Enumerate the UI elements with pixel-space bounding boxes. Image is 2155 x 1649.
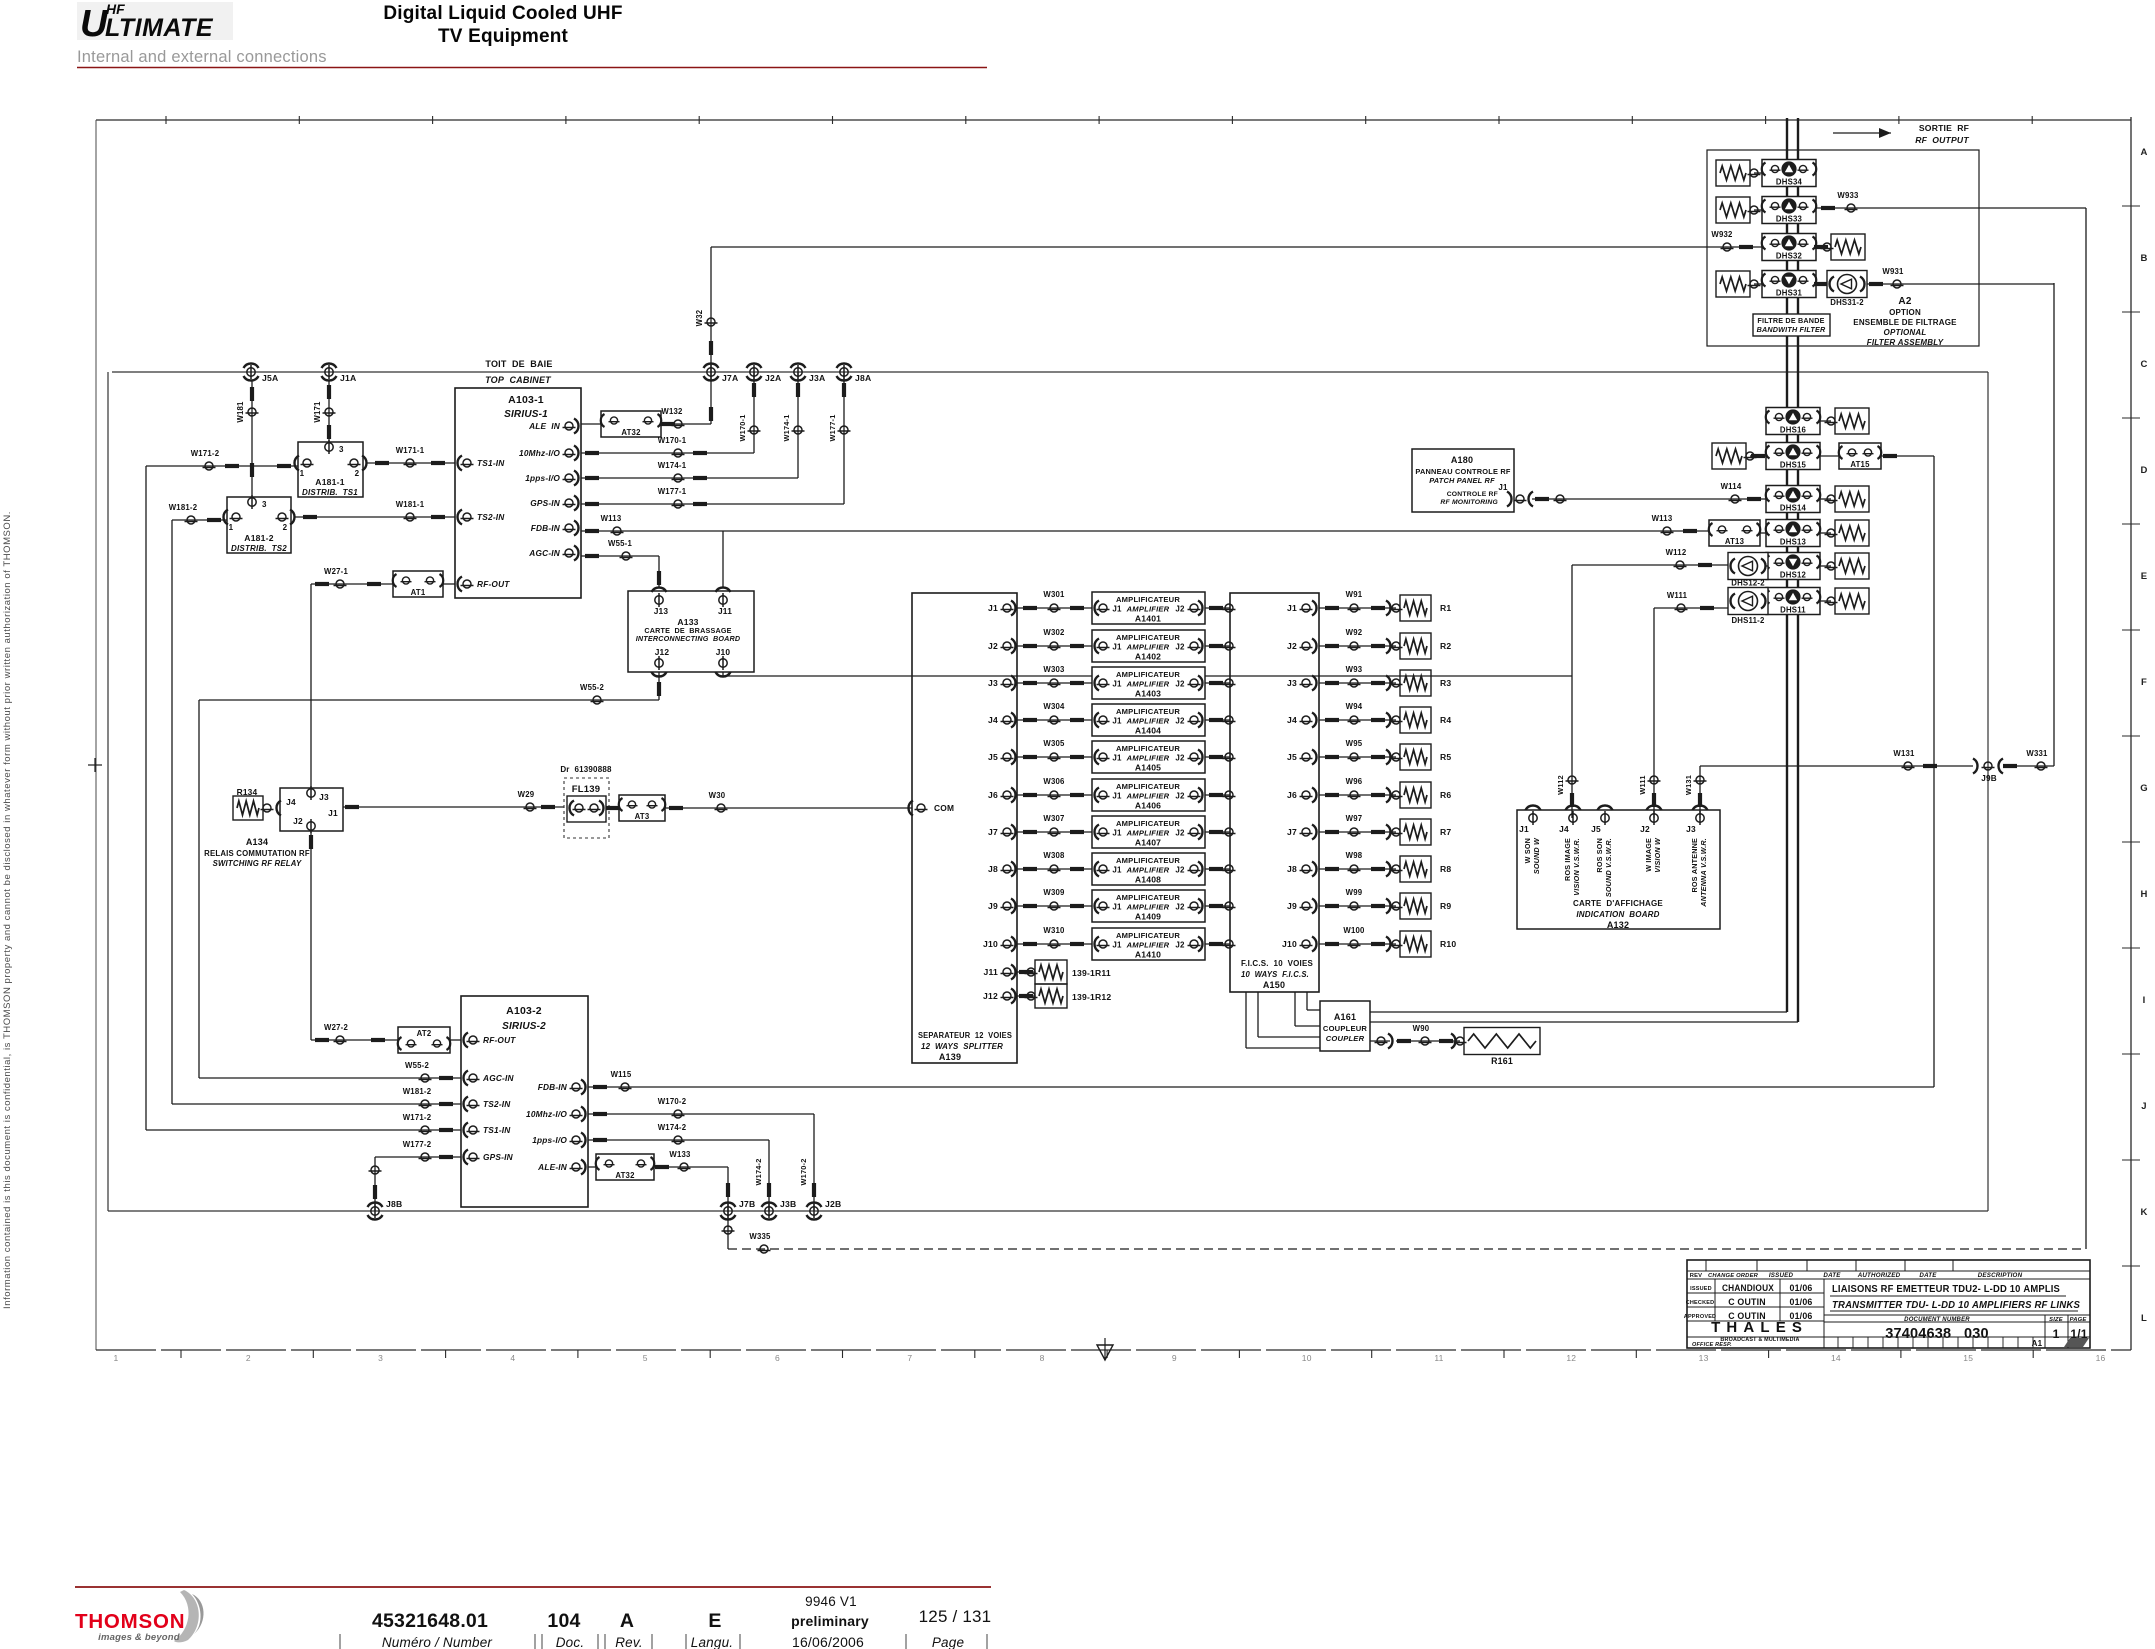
svg-text:J1: J1: [1112, 605, 1122, 614]
svg-text:139-1R12: 139-1R12: [1072, 992, 1111, 1002]
coupler DHS34: [1762, 160, 1816, 187]
svg-text:TOP CABINET: TOP CABINET: [485, 375, 552, 385]
svg-text:W932: W932: [1711, 230, 1733, 239]
A103-2 port RF-OUT: [463, 1033, 468, 1048]
svg-text:INDICATION BOARD: INDICATION BOARD: [1576, 910, 1659, 919]
title block: [1687, 1260, 2090, 1348]
amplifier A1403: [1092, 667, 1205, 699]
sheet frame right border: [2130, 117, 2132, 1350]
svg-text:THOMSON: THOMSON: [75, 1610, 185, 1633]
svg-text:A1: A1: [2032, 1339, 2043, 1348]
A132 port J3: [1693, 805, 1708, 810]
svg-text:SWITCHING RF RELAY: SWITCHING RF RELAY: [213, 859, 302, 868]
svg-text:VISION V.S.W.R.: VISION V.S.W.R.: [1572, 838, 1581, 896]
A132 port J1: [1526, 806, 1541, 810]
wire amplifier A1408 to FICS: [1205, 868, 1230, 870]
roof connector J1A: [322, 364, 337, 369]
svg-text:ISSUED: ISSUED: [1769, 1272, 1794, 1279]
svg-text:W27-2: W27-2: [324, 1023, 348, 1032]
svg-text:W55-2: W55-2: [405, 1061, 429, 1070]
wire amplifier A1404 to FICS: [1205, 719, 1230, 721]
svg-text:W335: W335: [749, 1232, 771, 1241]
svg-text:J4: J4: [1287, 715, 1297, 725]
svg-text:J5: J5: [1287, 752, 1297, 762]
wire W171-2 toward SIRIUS-2: [146, 465, 298, 467]
svg-text:J9: J9: [988, 901, 998, 911]
wire A134 J1 to FL139: [343, 806, 564, 808]
svg-text:SIZE: SIZE: [2049, 1317, 2064, 1323]
svg-text:J9B: J9B: [1981, 774, 1997, 783]
cabinet bottom connector J2B: [807, 1203, 822, 1207]
A132 port J5: [1598, 805, 1613, 810]
footer separators: [339, 1634, 341, 1649]
svg-text:DHS12: DHS12: [1780, 571, 1807, 580]
svg-text:Numéro / Number: Numéro / Number: [382, 1635, 493, 1649]
svg-text:COM: COM: [934, 803, 954, 813]
wire W305 splitter to amplifier A1405: [1017, 756, 1092, 758]
svg-text:W303: W303: [1043, 665, 1065, 674]
DHS14 load resistor: [1820, 498, 1831, 500]
svg-text:COUPLER: COUPLER: [1326, 1034, 1365, 1043]
A139 COM port: [908, 801, 913, 816]
svg-text:REV: REV: [1690, 1273, 1703, 1279]
unit A103-1 SIRIUS-1: [455, 388, 581, 598]
svg-text:AGC-IN: AGC-IN: [482, 1073, 515, 1083]
wire W181 from J5A to A181-2: [251, 380, 253, 497]
wire W308 splitter to amplifier A1408: [1017, 868, 1092, 870]
resistor R134: [233, 796, 263, 820]
A103-1 port TS2-IN: [458, 510, 463, 525]
wire W111 from A132 J2 to DHS11-2: [1653, 608, 1655, 818]
svg-text:AMPLIFICATEUR: AMPLIFICATEUR: [1116, 819, 1180, 828]
resistor R5: [1400, 744, 1431, 770]
svg-text:J9: J9: [1287, 901, 1297, 911]
coupler DHS31: [1762, 271, 1816, 298]
svg-text:W SON: W SON: [1523, 838, 1532, 863]
svg-text:10: 10: [1302, 1353, 1312, 1363]
DHS11 load resistor: [1820, 600, 1831, 602]
svg-text:R161: R161: [1491, 1056, 1513, 1066]
svg-text:RF-OUT: RF-OUT: [483, 1035, 516, 1045]
wire amplifier A1402 to FICS: [1205, 645, 1230, 647]
riser A134 J2 down to RF-OUT-2 line: [310, 831, 312, 1040]
svg-text:J1A: J1A: [340, 373, 356, 383]
resistor R9: [1400, 893, 1431, 919]
svg-text:2: 2: [283, 523, 288, 532]
svg-text:A1405: A1405: [1135, 763, 1161, 773]
svg-text:W933: W933: [1837, 191, 1859, 200]
svg-text:1: 1: [300, 469, 305, 478]
svg-text:W97: W97: [1346, 814, 1363, 823]
wire W304 splitter to amplifier A1404: [1017, 719, 1092, 721]
wire amplifier A14010 to FICS: [1205, 943, 1230, 945]
svg-text:W305: W305: [1043, 739, 1065, 748]
RF bus risers: [1786, 614, 1788, 1012]
svg-text:W174-1: W174-1: [658, 461, 687, 470]
svg-text:TV Equipment: TV Equipment: [438, 26, 569, 47]
svg-text:RELAIS COMMUTATION RF: RELAIS COMMUTATION RF: [204, 849, 310, 858]
svg-text:ROS IMAGE: ROS IMAGE: [1563, 838, 1572, 881]
coupler DHS11: [1766, 588, 1820, 615]
riser to J8A: [843, 372, 845, 504]
svg-text:FDB-IN: FDB-IN: [531, 523, 561, 533]
svg-text:G: G: [2140, 783, 2148, 794]
resistor R1: [1400, 595, 1431, 621]
svg-text:10 WAYS F.I.C.S.: 10 WAYS F.I.C.S.: [1241, 970, 1309, 979]
svg-text:W170-1: W170-1: [738, 414, 747, 441]
riser AT1 to A134 J3: [310, 584, 312, 788]
svg-text:AMPLIFICATEUR: AMPLIFICATEUR: [1116, 856, 1180, 865]
wire W114 to DHS14: [1532, 498, 1766, 500]
svg-text:A161: A161: [1334, 1012, 1356, 1022]
A103-1 port TS1-IN: [458, 456, 463, 471]
svg-text:Langu.: Langu.: [691, 1635, 734, 1649]
svg-text:A103-2: A103-2: [506, 1005, 542, 1017]
svg-text:11: 11: [1434, 1353, 1443, 1363]
svg-text:DHS12-2: DHS12-2: [1731, 579, 1765, 588]
svg-text:TOIT DE BAIE: TOIT DE BAIE: [485, 359, 552, 369]
svg-text:W113: W113: [1652, 514, 1673, 523]
svg-text:J10: J10: [716, 647, 731, 657]
board A132 INDICATION BOARD: [1517, 810, 1720, 929]
wire W302 splitter to amplifier A1402: [1017, 645, 1092, 647]
svg-text:W308: W308: [1043, 851, 1065, 860]
svg-text:DHS11: DHS11: [1780, 606, 1806, 615]
svg-text:16/06/2006: 16/06/2006: [792, 1634, 864, 1649]
wire W133 ALE to J7B: [654, 1166, 728, 1168]
svg-text:CONTROLE RF: CONTROLE RF: [1447, 491, 1498, 498]
svg-text:AMPLIFICATEUR: AMPLIFICATEUR: [1116, 744, 1180, 753]
svg-text:SIRIUS-2: SIRIUS-2: [502, 1021, 546, 1032]
svg-text:R5: R5: [1440, 752, 1451, 762]
svg-text:W174-1: W174-1: [782, 414, 791, 441]
svg-text:R3: R3: [1440, 678, 1451, 688]
roof connector J7A: [704, 364, 719, 368]
svg-text:C OUTIN: C OUTIN: [1728, 1297, 1766, 1307]
svg-text:J11: J11: [718, 606, 732, 616]
svg-text:CHECKED: CHECKED: [1686, 1300, 1715, 1306]
svg-text:W93: W93: [1346, 665, 1363, 674]
attenuator AT32 (bottom): [588, 1166, 596, 1168]
wire W131 from A132 J3: [1699, 766, 1701, 818]
svg-text:R7: R7: [1440, 827, 1451, 837]
svg-text:AMPLIFIER: AMPLIFIER: [1126, 941, 1170, 950]
wire W170-2 10Mhz to J2B: [588, 1113, 814, 1115]
svg-text:A: A: [620, 1610, 634, 1632]
svg-text:J2: J2: [1175, 903, 1185, 912]
svg-text:J10: J10: [983, 939, 998, 949]
svg-text:AMPLIFICATEUR: AMPLIFICATEUR: [1116, 782, 1180, 791]
svg-text:RF-OUT: RF-OUT: [477, 579, 510, 589]
svg-text:5: 5: [643, 1353, 648, 1363]
roof connector J5A: [244, 364, 259, 369]
A132 port J4: [1566, 805, 1581, 810]
svg-text:Doc.: Doc.: [556, 1635, 585, 1649]
svg-text:CHANDIOUX: CHANDIOUX: [1722, 1283, 1774, 1293]
svg-text:DOCUMENT NUMBER: DOCUMENT NUMBER: [1904, 1317, 1970, 1323]
svg-text:45321648.01: 45321648.01: [372, 1610, 488, 1632]
svg-text:AMPLIFICATEUR: AMPLIFICATEUR: [1116, 931, 1180, 940]
svg-text:J2: J2: [1175, 754, 1185, 763]
svg-text:A1403: A1403: [1135, 689, 1161, 699]
svg-text:DHS11-2: DHS11-2: [1731, 616, 1765, 625]
svg-text:BROADCAST & MULTIMEDIA: BROADCAST & MULTIMEDIA: [1720, 1337, 1799, 1343]
wire from A133 J10 to W112 riser: [722, 672, 724, 676]
svg-text:J2: J2: [1175, 829, 1185, 838]
wire amplifier A1406 to FICS: [1205, 794, 1230, 796]
svg-text:FILTRE DE BANDE: FILTRE DE BANDE: [1757, 316, 1824, 325]
DHS12 load resistor: [1820, 565, 1831, 567]
svg-text:4: 4: [510, 1353, 515, 1363]
svg-text:B: B: [2140, 253, 2147, 264]
svg-text:J1: J1: [1112, 717, 1122, 726]
resistor R6: [1400, 782, 1431, 808]
svg-text:W133: W133: [669, 1150, 691, 1159]
svg-text:FL139: FL139: [572, 784, 600, 795]
svg-text:J2: J2: [293, 816, 303, 826]
wire W171-2 into TS1-IN: [146, 1129, 461, 1131]
wire W933: [1815, 208, 1817, 210]
svg-text:104: 104: [547, 1610, 580, 1632]
svg-text:VISION W: VISION W: [1653, 837, 1662, 873]
svg-text:PAGE: PAGE: [2070, 1317, 2088, 1323]
svg-text:R2: R2: [1440, 641, 1451, 651]
svg-text:J2: J2: [1175, 605, 1185, 614]
attenuator AT1: [393, 571, 443, 597]
bottom centre mark: [1097, 1345, 1113, 1360]
wire W170-1: [581, 452, 754, 454]
coupler DHS33: [1762, 197, 1816, 224]
wire amplifier A1403 to FICS: [1205, 682, 1230, 684]
attenuator AT2: [398, 1027, 450, 1053]
coupler DHS12: [1766, 553, 1820, 580]
svg-text:ENSEMBLE DE FILTRAGE: ENSEMBLE DE FILTRAGE: [1853, 318, 1957, 327]
svg-text:DHS33: DHS33: [1776, 215, 1803, 224]
coupler DHS13: [1766, 520, 1820, 547]
wire W171-1 to SIRIUS-1 TS1-IN: [366, 462, 455, 464]
svg-text:J1: J1: [1112, 903, 1122, 912]
svg-text:A132: A132: [1607, 920, 1629, 930]
svg-text:DHS34: DHS34: [1776, 178, 1803, 187]
coupler DHS15: [1766, 443, 1820, 470]
svg-text:W310: W310: [1043, 926, 1065, 935]
cabinet bottom connector J3B: [762, 1203, 777, 1208]
svg-text:AMPLIFICATEUR: AMPLIFICATEUR: [1116, 670, 1180, 679]
svg-text:W171-1: W171-1: [396, 446, 425, 455]
svg-text:J5: J5: [1591, 824, 1601, 834]
sheet frame bottom border: [96, 1349, 2131, 1351]
svg-text:J3: J3: [988, 678, 998, 688]
riser to J3A: [797, 372, 799, 478]
svg-text:AUTHORIZED: AUTHORIZED: [1857, 1272, 1901, 1279]
svg-text:W170-2: W170-2: [799, 1158, 808, 1185]
DHS15 input resistor: [1712, 443, 1746, 469]
svg-text:1pps-I/O: 1pps-I/O: [532, 1135, 567, 1145]
svg-text:R10: R10: [1440, 939, 1456, 949]
svg-text:J2A: J2A: [765, 373, 781, 383]
wire W181-1 to SIRIUS-1 TS2-IN: [294, 516, 455, 518]
svg-text:AGC-IN: AGC-IN: [528, 548, 561, 558]
svg-text:A1404: A1404: [1135, 726, 1161, 736]
svg-text:W98: W98: [1346, 851, 1363, 860]
svg-text:J2: J2: [1175, 680, 1185, 689]
svg-text:SEPARATEUR 12 VOIES: SEPARATEUR 12 VOIES: [918, 1031, 1012, 1040]
svg-text:RF MONITORING: RF MONITORING: [1440, 499, 1498, 506]
svg-text:W115: W115: [611, 1070, 632, 1079]
svg-text:J12: J12: [983, 991, 998, 1001]
footer rule: [75, 1586, 991, 1588]
svg-text:J7: J7: [1287, 827, 1297, 837]
svg-text:J11: J11: [984, 967, 998, 977]
svg-text:TS2-IN: TS2-IN: [483, 1099, 511, 1109]
unit A150 10 WAYS FICS: [1230, 593, 1319, 992]
wire W331 to DHS31-2 riser: [2003, 765, 2054, 767]
svg-text:J4: J4: [988, 715, 998, 725]
A181-1 port 2: [348, 459, 361, 467]
riser J7A to ALE wire: [710, 372, 712, 424]
left centre mark: [88, 764, 102, 766]
resistor R4: [1400, 707, 1431, 733]
svg-text:ISSUED: ISSUED: [1690, 1286, 1712, 1292]
wire W27-2: [311, 1039, 398, 1041]
wire W174-1: [581, 477, 798, 479]
svg-text:W304: W304: [1043, 702, 1065, 711]
wire W335 from J7B: [727, 1211, 729, 1249]
wire W932 line to filter assembly: [711, 246, 1762, 248]
svg-text:TRANSMITTER TDU- L-DD 10 AMPLI: TRANSMITTER TDU- L-DD 10 AMPLIFIERS RF L…: [1832, 1300, 2080, 1311]
svg-text:ROS SON: ROS SON: [1595, 838, 1604, 873]
svg-text:AT2: AT2: [417, 1029, 432, 1038]
wire W174-2 1pps to J3B: [588, 1139, 769, 1141]
svg-text:E: E: [708, 1610, 721, 1632]
svg-text:W94: W94: [1346, 702, 1363, 711]
svg-text:TS1-IN: TS1-IN: [483, 1125, 511, 1135]
svg-text:W331: W331: [2026, 749, 2048, 758]
svg-text:RF OUTPUT: RF OUTPUT: [1915, 135, 1969, 145]
svg-text:125 / 131: 125 / 131: [919, 1607, 992, 1626]
svg-text:W30: W30: [709, 791, 726, 800]
svg-text:J1: J1: [1498, 483, 1508, 492]
svg-text:J10: J10: [1282, 939, 1297, 949]
svg-text:W111: W111: [1667, 591, 1688, 600]
svg-text:DATE: DATE: [1823, 1272, 1841, 1279]
svg-text:preliminary: preliminary: [791, 1613, 869, 1629]
wire W309 splitter to amplifier A1409: [1017, 905, 1092, 907]
svg-text:W174-2: W174-2: [658, 1123, 687, 1132]
svg-text:J5A: J5A: [262, 373, 278, 383]
coupler A161: [1320, 1001, 1370, 1051]
DHS13 load resistor: [1820, 532, 1831, 534]
svg-text:W301: W301: [1043, 590, 1065, 599]
svg-text:images & beyond: images & beyond: [98, 1632, 180, 1643]
svg-text:J4: J4: [1559, 824, 1569, 834]
svg-text:W181: W181: [236, 401, 245, 423]
amplifier A1401: [1092, 592, 1205, 624]
svg-text:D: D: [2140, 465, 2147, 476]
svg-text:LIAISONS RF EMETTEUR TDU2- L-D: LIAISONS RF EMETTEUR TDU2- L-DD 10 AMPLI…: [1832, 1284, 2060, 1295]
svg-text:J6: J6: [1287, 790, 1297, 800]
svg-text:A1408: A1408: [1135, 875, 1161, 885]
logo UHF Ultimate: [77, 1, 233, 45]
amplifier A1405: [1092, 741, 1205, 773]
svg-text:INTERCONNECTING BOARD: INTERCONNECTING BOARD: [636, 634, 741, 643]
svg-text:6: 6: [775, 1353, 780, 1363]
svg-text:E: E: [2141, 571, 2148, 582]
wire W301 splitter to amplifier A1401: [1017, 607, 1092, 609]
svg-text:H: H: [2140, 889, 2147, 900]
wire amplifier A1401 to FICS: [1205, 607, 1230, 609]
wire A161 to RF risers lower: [1370, 1021, 1798, 1023]
wire W310 splitter to amplifier A1410: [1017, 943, 1092, 945]
svg-text:16: 16: [2096, 1353, 2106, 1363]
svg-text:J1: J1: [1112, 792, 1122, 801]
cabinet bottom line: [108, 1210, 1988, 1212]
resistor R2: [1400, 633, 1431, 659]
svg-text:SOUND W: SOUND W: [1532, 837, 1541, 874]
svg-text:W181-2: W181-2: [403, 1087, 432, 1096]
panel A180 PATCH PANEL RF: [1412, 449, 1514, 512]
svg-text:A1409: A1409: [1135, 912, 1161, 922]
DHS33 input resistor: [1716, 197, 1750, 223]
svg-text:J4: J4: [286, 797, 296, 807]
amplifier A1409: [1092, 890, 1205, 922]
svg-text:J2: J2: [1175, 941, 1185, 950]
svg-text:10Mhz-I/O: 10Mhz-I/O: [526, 1109, 567, 1119]
document number cell: [1824, 1314, 2090, 1316]
svg-text:J3B: J3B: [780, 1199, 796, 1209]
svg-text:J1: J1: [988, 603, 998, 613]
attenuator AT15: [1839, 443, 1881, 469]
svg-text:OPTIONAL: OPTIONAL: [1884, 328, 1927, 337]
A181-1 port 1: [295, 456, 300, 471]
svg-text:W112: W112: [1666, 548, 1687, 557]
svg-text:PATCH PANEL RF: PATCH PANEL RF: [1429, 476, 1495, 485]
DHS34 input resistor: [1716, 160, 1750, 186]
svg-text:AMPLIFIER: AMPLIFIER: [1126, 605, 1170, 614]
wire W932 connector: [1739, 245, 1753, 249]
cabinet left edge: [107, 372, 109, 1211]
svg-text:AT3: AT3: [635, 812, 650, 821]
svg-text:T H A L E S: T H A L E S: [1711, 1319, 1803, 1336]
relay A134 SWITCHING RF RELAY: [280, 788, 343, 831]
coupler DHS14: [1766, 486, 1820, 513]
svg-text:W306: W306: [1043, 777, 1065, 786]
svg-text:J7A: J7A: [722, 373, 738, 383]
svg-text:AT13: AT13: [1725, 537, 1745, 546]
wire amplifier A1405 to FICS: [1205, 756, 1230, 758]
svg-text:W931: W931: [1882, 267, 1904, 276]
svg-text:SIRIUS-1: SIRIUS-1: [504, 409, 548, 420]
wire W55-2 into AGC-IN: [199, 1077, 461, 1079]
wire W30 to splitter COM: [665, 807, 912, 809]
wire W306 splitter to amplifier A1406: [1017, 794, 1092, 796]
svg-text:J2: J2: [1287, 641, 1297, 651]
svg-text:W309: W309: [1043, 888, 1065, 897]
svg-text:A181-2: A181-2: [244, 533, 273, 543]
svg-text:DHS31: DHS31: [1776, 289, 1803, 298]
svg-text:A1402: A1402: [1135, 652, 1161, 662]
arrow SORTIE RF / RF OUTPUT: [1833, 132, 1891, 134]
svg-text:W181-1: W181-1: [396, 500, 425, 509]
wire W307 splitter to amplifier A1407: [1017, 831, 1092, 833]
resistor R10: [1400, 931, 1431, 957]
wire W27-1: [311, 583, 393, 585]
svg-text:AMPLIFIER: AMPLIFIER: [1126, 829, 1170, 838]
RF output risers: [1786, 118, 1788, 160]
coupler DHS16: [1766, 408, 1820, 435]
svg-text:W174-2: W174-2: [754, 1158, 763, 1185]
svg-text:J1: J1: [1287, 603, 1297, 613]
